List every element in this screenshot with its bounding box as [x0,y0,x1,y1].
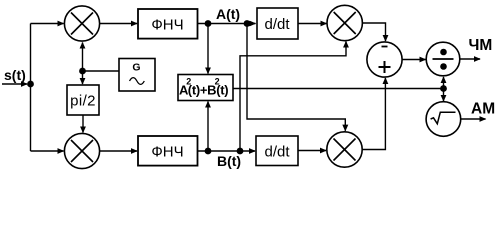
phase shifter pi/2 [67,85,99,115]
svg-text:pi/2: pi/2 [70,93,96,110]
wire G junction up to M1 [82,43,84,72]
svg-text:d/dt: d/dt [264,144,290,161]
wire squarer output [233,88,444,90]
wire M3 to LPF2 [100,150,137,152]
svg-text:ФНЧ: ФНЧ [151,144,183,161]
multiplier M4 [327,132,362,167]
divider U1 [426,42,460,76]
node junction s(t) split [27,81,34,88]
svg-text:(t): (t) [216,82,228,97]
svg-text:G: G [132,62,140,74]
wire junction down to sqrt [443,89,445,102]
svg-text:ЧМ: ЧМ [469,37,493,54]
differentiator d/dt2 [256,136,298,166]
wire s(t) input [2,83,27,85]
node junction B [205,148,212,155]
generator G [119,59,155,92]
node junction G [79,68,86,75]
wire to multiplier M3 [31,150,64,152]
wire M4 to subtractor [362,78,385,150]
squarer block A2+B2 [178,75,233,101]
wire M1 to LPF1 [100,23,137,25]
wire junction up to divider [443,77,445,89]
wire to multiplier M1 [31,23,64,25]
node junction B cross [237,148,244,155]
wire d/dt2 to M4 [298,150,326,152]
subtractor S1 [367,42,402,77]
multiplier M1 [64,6,99,41]
wire A(t) cross to M4 [247,24,345,131]
wire subtractor to divider [402,59,425,61]
svg-text:d/dt: d/dt [264,16,290,33]
wire LPF2 to d/dt2 [198,150,256,152]
LPF block FNCh1 [138,9,198,39]
wire LPF1 to d/dt1 [198,23,256,25]
node junction A cross [244,20,251,27]
wire M2 to subtractor [362,23,385,41]
svg-text:АМ: АМ [471,101,495,118]
wire d/dt1 to M2 [298,23,327,25]
wire A(t) down to squarer box [207,24,209,74]
LPF block FNCh2 [138,136,198,166]
node junction A [205,20,212,27]
wire B(t) up to squarer box [207,102,209,152]
node junction squarer out [440,85,447,92]
svg-text:A(t): A(t) [216,6,240,22]
wire divider to ChM output [460,58,480,60]
wire pi/2 to M3 [82,115,84,133]
svg-text:ФНЧ: ФНЧ [151,17,183,34]
wire G box to junction [83,70,120,72]
sqrt block U2 [426,102,461,137]
svg-text:(t)+B: (t)+B [188,82,216,97]
wire G junction down to pi/2 [82,71,84,84]
differentiator d/dt1 [257,8,298,39]
multiplier M3 [64,133,99,168]
multiplier M2 [327,5,362,40]
wire B(t) cross to M2 [240,42,346,152]
wire sqrt to AM output [461,118,486,120]
svg-text:s(t): s(t) [4,67,26,83]
svg-text:B(t): B(t) [217,153,241,169]
wire vertical splitter [30,24,32,152]
